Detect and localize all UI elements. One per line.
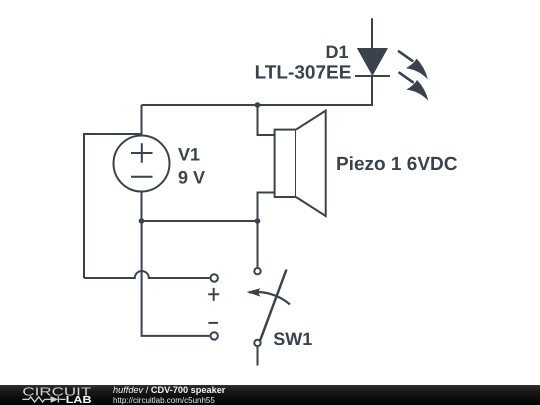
svg-text:LTL-307EE: LTL-307EE: [255, 62, 352, 83]
svg-text:V1: V1: [178, 145, 200, 165]
svg-text:SW1: SW1: [273, 329, 312, 349]
svg-text:9 V: 9 V: [178, 167, 205, 187]
svg-text:LAB: LAB: [66, 395, 92, 405]
svg-text:D1: D1: [325, 42, 348, 62]
svg-text:Piezo 1 6VDC: Piezo 1 6VDC: [336, 154, 458, 175]
